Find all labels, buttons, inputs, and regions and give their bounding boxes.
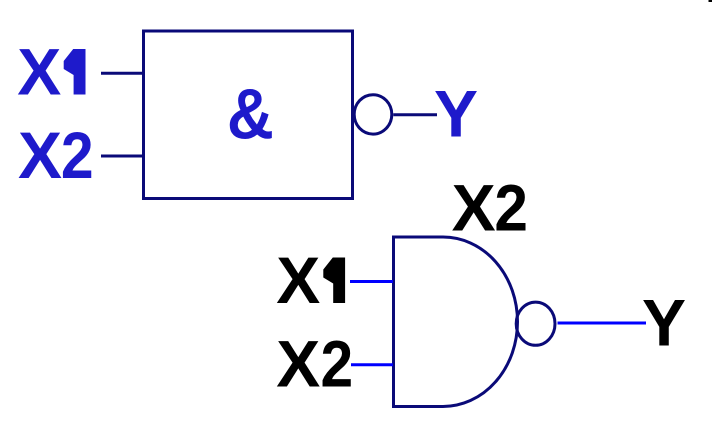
output label Y (blue) — [434, 77, 478, 151]
inversion bubble U1 output — [354, 95, 392, 134]
input label X1 (blue) — [17, 35, 85, 109]
wire X1 to U2 — [350, 280, 393, 283]
label & (U1 function) — [227, 73, 274, 154]
svg-text:X: X — [276, 243, 320, 317]
wire X1 to U1 — [101, 72, 144, 75]
gate U1 (IEC AND-symbol rectangle) — [144, 31, 353, 199]
gate U2 (ANSI NAND distinctive-shape body) — [394, 237, 518, 407]
wire X2 to U2 — [351, 363, 393, 366]
input label X2 (black) — [276, 327, 320, 401]
screenshot artifact mark (top-right corner) — [709, 0, 712, 2]
svg-text:Y: Y — [434, 77, 478, 151]
svg-text:X: X — [18, 118, 62, 192]
input label X1 (black) — [276, 243, 345, 317]
svg-text:2: 2 — [321, 327, 354, 401]
inversion bubble U2 output — [516, 302, 555, 345]
wire U1 output to Y — [393, 113, 437, 116]
svg-text:2: 2 — [494, 172, 528, 245]
input label X2 (blue) — [18, 118, 62, 192]
wire U2 output to Y — [558, 322, 647, 325]
output label Y (black) — [642, 286, 686, 360]
svg-text:&: & — [227, 73, 274, 154]
svg-text:X: X — [17, 35, 61, 109]
wire X2 to U1 — [101, 155, 144, 158]
gate U2 name label X2 (black, above gate) — [452, 171, 496, 245]
svg-text:X: X — [276, 327, 320, 401]
svg-text:Y: Y — [642, 286, 686, 360]
svg-text:2: 2 — [61, 119, 94, 193]
svg-text:X: X — [452, 171, 496, 245]
